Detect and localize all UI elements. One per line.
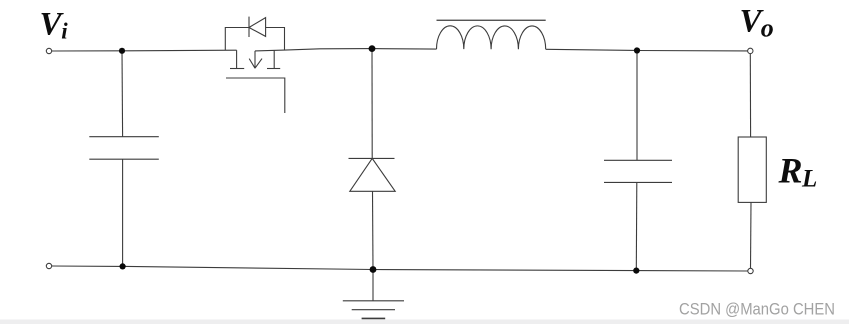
svg-text:R: R <box>778 151 803 191</box>
svg-text:CSDN @ManGo CHEN: CSDN @ManGo CHEN <box>679 299 835 318</box>
svg-text:i: i <box>61 19 68 44</box>
svg-text:o: o <box>761 14 774 43</box>
svg-text:L: L <box>801 165 817 192</box>
